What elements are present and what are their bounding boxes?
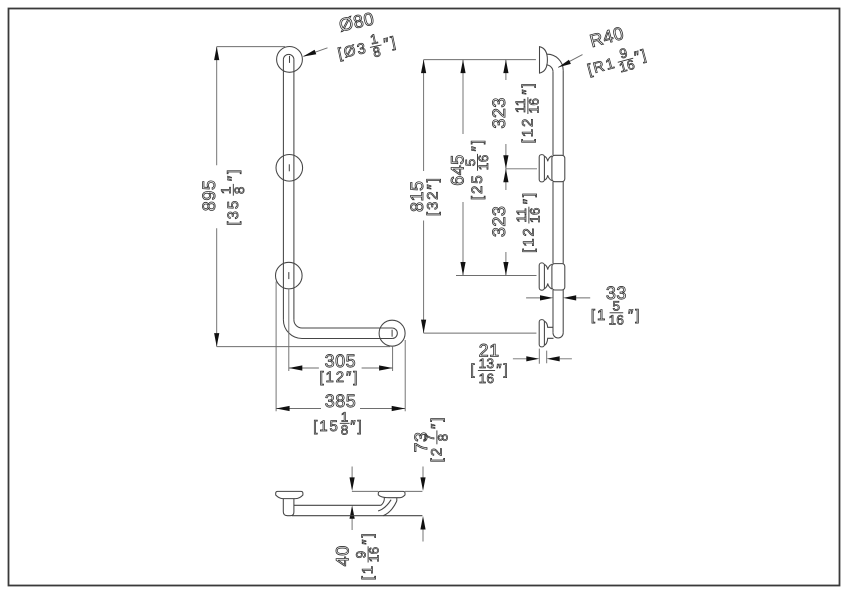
arrows 645 [460, 60, 465, 74]
ext line top flanges [424, 59, 536, 61]
svg-text:[1: [1 [591, 307, 607, 324]
svg-text:40: 40 [333, 545, 353, 566]
end flange stem [283, 499, 294, 516]
dim text [15 1/8"] [313, 409, 363, 437]
corner outer arc [383, 501, 397, 516]
svg-text:″]: ″] [350, 418, 363, 435]
svg-text:″]: ″] [520, 191, 537, 204]
dim text [25 5/16"] [463, 138, 491, 200]
svg-text:385: 385 [325, 391, 357, 411]
BOTTOM VIEW OBJECT [276, 491, 423, 515]
svg-text:[1: [1 [360, 564, 377, 580]
svg-text:[32″]: [32″] [424, 176, 441, 216]
extension line bottom (895) [217, 346, 390, 348]
horizontal bar end cap [392, 328, 397, 339]
top bend inner arc [546, 65, 553, 72]
svg-text:″]: ″] [628, 307, 641, 324]
arrows 33 [540, 295, 553, 300]
svg-text:″]: ″] [360, 532, 377, 545]
dim text [2 7/8"] [422, 416, 450, 463]
elbow outer arc [283, 320, 302, 339]
corner middle arc [378, 500, 391, 511]
BOTTOM VIEW DIMENSIONS [352, 490, 423, 492]
arrow down 895 [214, 333, 219, 347]
svg-text:13: 13 [479, 356, 495, 371]
ext lines 305 [289, 290, 393, 372]
lower flange collar [552, 264, 565, 290]
ext line caps top [352, 490, 423, 492]
dim line 895 [216, 47, 218, 347]
21 arrow tails [513, 358, 572, 360]
extension line top (895) [217, 46, 286, 48]
svg-text:″]: ″] [428, 416, 445, 429]
dim text [35 1/8"] [219, 168, 247, 226]
svg-text:323: 323 [489, 97, 509, 129]
arrows 21 [526, 356, 539, 361]
SIDE VIEW DIMENSIONS [424, 55, 591, 364]
21 ext lines [539, 349, 546, 364]
ext line middle flange [506, 168, 537, 170]
middle flange collar [552, 155, 565, 181]
svg-text:8: 8 [341, 423, 349, 438]
bar bottom cap [553, 333, 563, 338]
bar top end cap [283, 54, 294, 59]
FRONT VIEW OBJECT [276, 47, 406, 347]
top bend outer arc [547, 54, 563, 70]
arrow tails 73/40 [352, 467, 423, 542]
middle flange center mark [288, 164, 290, 171]
top flange center mark [289, 56, 291, 63]
svg-text:16: 16 [527, 207, 542, 223]
FRONT VIEW DIMENSIONS [217, 47, 423, 542]
svg-text:[: [ [470, 362, 476, 379]
leader arrowhead dia80 [303, 50, 317, 57]
ext lines 385 [276, 282, 405, 412]
top flange circle [277, 47, 303, 73]
bar bottom edge [292, 515, 422, 517]
svg-text:16: 16 [526, 98, 541, 114]
33 arrow tails [526, 297, 590, 299]
dim text [12 11/16"] upper [513, 82, 541, 144]
svg-text:″]: ″] [225, 168, 242, 181]
dim line 815 [423, 60, 425, 334]
lower flange center mark [288, 272, 290, 279]
svg-text:[25: [25 [469, 174, 486, 201]
svg-text:16: 16 [479, 371, 495, 386]
dim text [R1 9/16"] [584, 40, 651, 83]
arrows 305 [289, 365, 303, 370]
lower flange plate [539, 263, 544, 290]
dim text [1 5/16"] [591, 299, 641, 328]
svg-text:″]: ″] [496, 362, 509, 379]
svg-text:[35: [35 [225, 199, 242, 226]
svg-text:16: 16 [608, 312, 624, 327]
bar left edge segments [552, 72, 554, 333]
arrows 73/40 set [350, 477, 355, 491]
end flange cap plate [276, 491, 303, 498]
arrows 323 lower [503, 169, 508, 183]
top flange plate [540, 47, 548, 73]
svg-text:8: 8 [232, 186, 247, 194]
dim line 305 [289, 367, 393, 369]
svg-text:″]: ″] [519, 82, 536, 95]
svg-text:305: 305 [325, 351, 357, 371]
svg-text:5: 5 [612, 299, 620, 314]
svg-text:[12: [12 [520, 226, 537, 253]
svg-text:[2: [2 [428, 446, 445, 462]
wall flange stem ticks [384, 498, 397, 501]
bar top edge [294, 504, 381, 506]
svg-text:323: 323 [489, 206, 509, 238]
lower flange circle [276, 262, 303, 289]
svg-text:″]: ″] [469, 138, 486, 151]
svg-text:[15: [15 [313, 418, 340, 435]
end flange center mark [391, 330, 393, 337]
arrows 815 [421, 60, 426, 74]
SIDE VIEW OBJECT [539, 47, 565, 347]
horizontal bar top edge [302, 327, 392, 329]
dia leader line [304, 48, 328, 57]
bottom flange plate [539, 320, 544, 347]
svg-text:16: 16 [367, 546, 382, 562]
middle flange plate [539, 155, 544, 182]
svg-text:[12″]: [12″] [319, 369, 359, 386]
svg-text:[12: [12 [519, 117, 536, 144]
arrows 323 upper [503, 60, 508, 74]
ext line lower flange [456, 275, 537, 277]
dim text [1 9/16"] [353, 532, 381, 581]
middle flange cone [544, 156, 552, 181]
dim text [dia 3 1/8"] [335, 27, 400, 67]
svg-text:16: 16 [476, 154, 491, 170]
R40 leader arrowhead [558, 60, 571, 68]
vertical bar left edge [282, 60, 284, 320]
end flange circle [379, 320, 405, 346]
horizontal bar bottom edge [302, 338, 392, 340]
arrow up 895 [214, 47, 219, 61]
wall flange cap [378, 491, 405, 497]
middle flange circle [276, 155, 303, 182]
corner inner arc [381, 500, 384, 506]
svg-text:895: 895 [199, 180, 219, 212]
svg-text:8: 8 [435, 433, 450, 441]
bottom flange cone and stem [544, 321, 553, 345]
ext line bottom flange [424, 332, 537, 334]
lower flange cone [544, 264, 552, 289]
bar right edge segments [562, 70, 564, 333]
elbow inner arc [294, 320, 302, 328]
R40 leader line [558, 55, 582, 68]
dim text [12 11/16"] lower [514, 191, 542, 253]
dim line 323 lower [505, 169, 507, 276]
dim line 385 [276, 408, 405, 410]
arrows 385 [276, 406, 290, 411]
dim line 323 upper [505, 60, 507, 169]
dim line 645 [462, 60, 464, 276]
vertical bar right edge [293, 60, 295, 320]
dim text [13/16"] [470, 356, 509, 386]
